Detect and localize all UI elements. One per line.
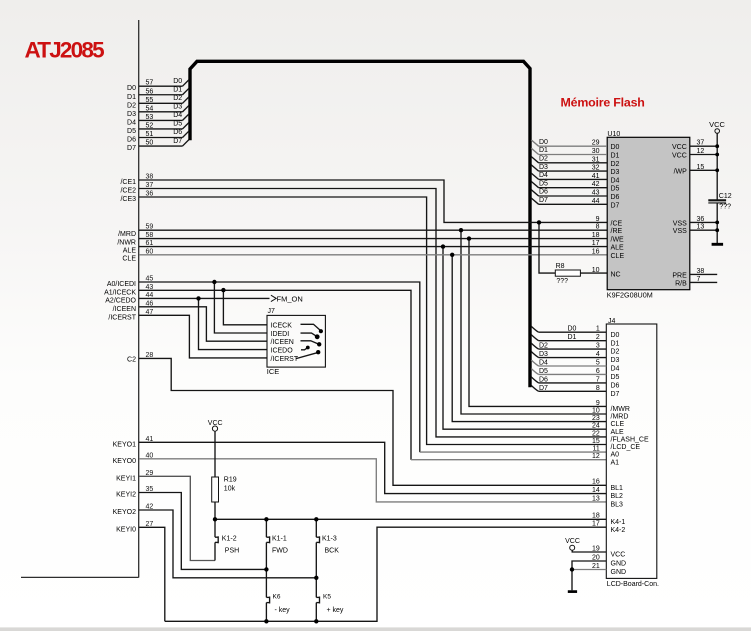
svg-text:D2: D2 — [539, 343, 548, 350]
svg-text:D1: D1 — [127, 94, 136, 101]
svg-text:58: 58 — [146, 232, 154, 239]
svg-text:K4-2: K4-2 — [611, 527, 626, 534]
svg-text:22: 22 — [592, 430, 600, 437]
svg-text:C2: C2 — [127, 357, 136, 364]
svg-text:35: 35 — [146, 486, 154, 493]
svg-text:D5: D5 — [173, 121, 182, 128]
svg-text:60: 60 — [146, 248, 154, 255]
svg-text:IDEDI: IDEDI — [271, 331, 290, 338]
svg-text:28: 28 — [146, 352, 154, 359]
svg-text:D1: D1 — [173, 86, 182, 93]
svg-text:- key: - key — [275, 607, 291, 614]
svg-text:D2: D2 — [611, 349, 620, 356]
svg-text:CLE: CLE — [122, 256, 136, 263]
svg-text:/WP: /WP — [674, 168, 688, 175]
svg-text:VSS: VSS — [673, 228, 687, 235]
svg-text:D5: D5 — [611, 374, 620, 381]
svg-text:32: 32 — [592, 165, 600, 172]
svg-text:KEYO0: KEYO0 — [113, 458, 136, 465]
svg-text:56: 56 — [146, 88, 154, 95]
svg-text:D6: D6 — [173, 129, 182, 136]
svg-text:ALE: ALE — [611, 245, 625, 252]
svg-text:7: 7 — [697, 276, 701, 283]
svg-text:ATJ2085: ATJ2085 — [25, 38, 105, 63]
svg-text:17: 17 — [592, 521, 600, 528]
svg-text:7: 7 — [596, 376, 600, 383]
svg-text:29: 29 — [592, 140, 600, 147]
svg-text:VCC: VCC — [208, 420, 223, 427]
svg-text:37: 37 — [697, 140, 705, 147]
svg-text:A1/ICECK: A1/ICECK — [104, 289, 136, 296]
svg-text:D4: D4 — [539, 172, 548, 179]
svg-text:D3: D3 — [127, 111, 136, 118]
svg-text:VCC: VCC — [709, 120, 725, 129]
svg-text:D1: D1 — [568, 334, 577, 341]
svg-text:GND: GND — [611, 561, 627, 568]
svg-text:47: 47 — [146, 309, 154, 316]
svg-text:Mémoire Flash: Mémoire Flash — [561, 96, 645, 110]
svg-text:41: 41 — [592, 173, 600, 180]
svg-text:45: 45 — [146, 276, 154, 283]
svg-text:/CE: /CE — [611, 220, 623, 227]
svg-text:27: 27 — [146, 521, 154, 528]
svg-text:A0: A0 — [611, 452, 620, 459]
svg-text:D6: D6 — [611, 194, 620, 201]
svg-text:D3: D3 — [539, 351, 548, 358]
svg-text:D7: D7 — [539, 197, 548, 204]
svg-text:31: 31 — [592, 156, 600, 163]
svg-text:D7: D7 — [173, 138, 182, 145]
svg-text:51: 51 — [146, 131, 154, 138]
svg-text:23: 23 — [592, 415, 600, 422]
svg-text:K5: K5 — [323, 593, 331, 600]
svg-text:CLE: CLE — [611, 253, 625, 260]
svg-text:59: 59 — [146, 224, 154, 231]
svg-text:10: 10 — [592, 267, 600, 274]
svg-text:VCC: VCC — [565, 538, 580, 545]
svg-text:BL3: BL3 — [611, 502, 624, 509]
svg-text:ICE: ICE — [267, 367, 280, 376]
svg-text:J4: J4 — [608, 318, 616, 325]
svg-text:KEYO1: KEYO1 — [113, 441, 136, 448]
svg-text:K1-3: K1-3 — [322, 536, 337, 543]
svg-text:36: 36 — [146, 191, 154, 198]
svg-text:4: 4 — [596, 351, 600, 358]
svg-text:D2: D2 — [611, 161, 620, 168]
svg-text:U10: U10 — [607, 131, 620, 138]
svg-text:LCD-Board-Con.: LCD-Board-Con. — [607, 581, 659, 588]
svg-text:2: 2 — [596, 334, 600, 341]
svg-text:BL1: BL1 — [611, 485, 624, 492]
svg-text:BL2: BL2 — [611, 493, 624, 500]
svg-text:/CE1: /CE1 — [120, 179, 136, 186]
svg-text:D0: D0 — [539, 139, 548, 146]
svg-text:D0: D0 — [611, 144, 620, 151]
svg-text:/FLASH_CE: /FLASH_CE — [611, 437, 649, 444]
svg-text:VSS: VSS — [673, 220, 687, 227]
svg-text:ICEDO: ICEDO — [271, 348, 294, 355]
svg-text:D5: D5 — [611, 186, 620, 193]
svg-text:D0: D0 — [611, 332, 620, 339]
svg-text:ALE: ALE — [611, 429, 625, 436]
svg-text:37: 37 — [146, 182, 154, 189]
svg-text:44: 44 — [146, 292, 154, 299]
svg-text:14: 14 — [592, 487, 600, 494]
svg-text:44: 44 — [592, 198, 600, 205]
svg-text:13: 13 — [697, 224, 705, 231]
svg-text:D3: D3 — [611, 169, 620, 176]
svg-text:D6: D6 — [539, 376, 548, 383]
svg-text:PSH: PSH — [225, 548, 239, 555]
svg-text:D1: D1 — [611, 340, 620, 347]
svg-text:D2: D2 — [173, 95, 182, 102]
svg-text:GND: GND — [611, 569, 627, 576]
svg-text:D0: D0 — [173, 78, 182, 85]
svg-text:D5: D5 — [539, 368, 548, 375]
svg-text:3: 3 — [596, 343, 600, 350]
svg-text:BCK: BCK — [325, 548, 340, 555]
svg-text:KEYI2: KEYI2 — [116, 492, 136, 499]
svg-text:D4: D4 — [611, 366, 620, 373]
svg-text:FWD: FWD — [272, 548, 288, 555]
svg-text:10: 10 — [592, 407, 600, 414]
svg-text:VCC: VCC — [672, 144, 687, 151]
svg-text:D3: D3 — [539, 164, 548, 171]
svg-text:13: 13 — [592, 495, 600, 502]
svg-text:61: 61 — [146, 240, 154, 247]
svg-text:R19: R19 — [224, 477, 237, 484]
svg-text:D7: D7 — [127, 145, 136, 152]
svg-text:/MWR: /MWR — [611, 406, 630, 413]
svg-text:21: 21 — [592, 563, 600, 570]
svg-text:D6: D6 — [127, 137, 136, 144]
svg-text:/ICEEN: /ICEEN — [113, 306, 136, 313]
svg-text:30: 30 — [592, 148, 600, 155]
svg-text:/ICEEN: /ICEEN — [271, 339, 294, 346]
svg-text:D0: D0 — [127, 85, 136, 92]
svg-text:6: 6 — [596, 368, 600, 375]
svg-text:D1: D1 — [611, 153, 620, 160]
svg-text:40: 40 — [146, 452, 154, 459]
svg-text:ALE: ALE — [123, 247, 137, 254]
svg-text:CLE: CLE — [611, 421, 625, 428]
svg-text:K6: K6 — [273, 593, 281, 600]
svg-text:8: 8 — [596, 224, 600, 231]
svg-text:A0/ICEDI: A0/ICEDI — [107, 281, 136, 288]
svg-text:15: 15 — [697, 164, 705, 171]
svg-text:/WE: /WE — [611, 237, 625, 244]
svg-text:/CE2: /CE2 — [120, 188, 136, 195]
svg-text:/CE3: /CE3 — [120, 196, 136, 203]
svg-text:55: 55 — [146, 97, 154, 104]
svg-text:K9F2G08U0M: K9F2G08U0M — [607, 290, 653, 299]
svg-text:36: 36 — [697, 216, 705, 223]
svg-text:18: 18 — [592, 513, 600, 520]
svg-text:ICECK: ICECK — [271, 323, 293, 330]
svg-text:9: 9 — [596, 216, 600, 223]
svg-text:KEYI0: KEYI0 — [116, 526, 136, 533]
svg-text:A2/CEDO: A2/CEDO — [105, 297, 136, 304]
svg-text:42: 42 — [592, 181, 600, 188]
svg-text:C12: C12 — [719, 193, 732, 200]
svg-text:K1-1: K1-1 — [272, 536, 287, 543]
svg-text:D5: D5 — [539, 180, 548, 187]
svg-text:K4-1: K4-1 — [611, 519, 626, 526]
svg-text:D0: D0 — [568, 326, 577, 333]
svg-text:42: 42 — [146, 504, 154, 511]
svg-text:1: 1 — [596, 326, 600, 333]
svg-text:D3: D3 — [173, 104, 182, 111]
svg-text:???: ??? — [556, 278, 568, 285]
svg-text:38: 38 — [697, 268, 705, 275]
svg-text:24: 24 — [592, 423, 600, 430]
svg-text:54: 54 — [146, 105, 154, 112]
svg-text:D4: D4 — [539, 359, 548, 366]
svg-text:12: 12 — [592, 453, 600, 460]
svg-text:VCC: VCC — [611, 552, 626, 559]
svg-text:D5: D5 — [127, 128, 136, 135]
svg-text:20: 20 — [592, 554, 600, 561]
svg-text:+ key: + key — [327, 607, 344, 614]
svg-text:/RE: /RE — [611, 228, 623, 235]
svg-text:D2: D2 — [127, 102, 136, 109]
svg-text:43: 43 — [146, 284, 154, 291]
svg-text:PRE: PRE — [672, 272, 687, 279]
svg-text:D4: D4 — [173, 112, 182, 119]
svg-text:FM_ON: FM_ON — [277, 295, 303, 304]
svg-text:D6: D6 — [611, 383, 620, 390]
svg-text:/MRD: /MRD — [611, 414, 629, 421]
svg-text:11: 11 — [593, 446, 600, 453]
svg-text:D1: D1 — [539, 147, 548, 154]
svg-text:D7: D7 — [611, 391, 620, 398]
svg-text:J7: J7 — [268, 308, 276, 315]
svg-text:15: 15 — [592, 438, 600, 445]
svg-text:/ICERST: /ICERST — [108, 314, 136, 321]
svg-text:18: 18 — [592, 232, 600, 239]
svg-text:17: 17 — [592, 240, 600, 247]
svg-text:41: 41 — [146, 436, 154, 443]
svg-text:D7: D7 — [611, 202, 620, 209]
svg-text:D4: D4 — [611, 177, 620, 184]
svg-text:43: 43 — [592, 190, 600, 197]
svg-text:D2: D2 — [539, 156, 548, 163]
svg-text:D4: D4 — [127, 119, 136, 126]
svg-text:29: 29 — [146, 470, 154, 477]
svg-text:???: ??? — [719, 204, 731, 211]
svg-text:5: 5 — [596, 359, 600, 366]
svg-text:K1-2: K1-2 — [222, 536, 237, 543]
svg-text:38: 38 — [146, 174, 154, 181]
svg-text:57: 57 — [146, 80, 154, 87]
svg-text:/NWR: /NWR — [117, 240, 136, 247]
svg-text:NC: NC — [611, 271, 621, 278]
svg-text:D3: D3 — [611, 357, 620, 364]
svg-text:50: 50 — [146, 140, 154, 147]
svg-text:A1: A1 — [611, 459, 620, 466]
svg-text:53: 53 — [146, 114, 154, 121]
svg-text:D7: D7 — [539, 385, 548, 392]
svg-text:10k: 10k — [224, 486, 236, 493]
svg-text:R/B: R/B — [675, 280, 687, 287]
svg-text:KEYO2: KEYO2 — [113, 509, 136, 516]
svg-text:46: 46 — [146, 300, 154, 307]
svg-text:9: 9 — [596, 400, 600, 407]
svg-text:12: 12 — [697, 148, 705, 155]
svg-text:VCC: VCC — [672, 153, 687, 160]
svg-text:19: 19 — [592, 545, 600, 552]
svg-text:/MRD: /MRD — [118, 231, 136, 238]
svg-text:8: 8 — [596, 385, 600, 392]
svg-text:D6: D6 — [539, 189, 548, 196]
svg-text:16: 16 — [592, 248, 600, 255]
svg-text:R8: R8 — [556, 263, 565, 270]
svg-text:/LCD_CE: /LCD_CE — [611, 444, 641, 451]
svg-text:16: 16 — [592, 479, 600, 486]
svg-text:/ICERST: /ICERST — [271, 356, 299, 363]
svg-text:52: 52 — [146, 122, 154, 129]
svg-text:KEYI1: KEYI1 — [116, 475, 136, 482]
